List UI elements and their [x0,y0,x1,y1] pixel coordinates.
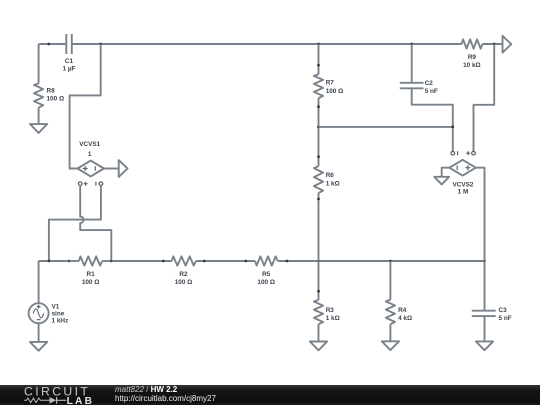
node dot R1 left terminal [68,260,71,263]
node dot R7 top junction [317,43,320,46]
logo resistor-diode doodle [24,398,49,402]
svg-text:5 nF: 5 nF [499,315,512,322]
svg-text:100 Ω: 100 Ω [82,279,100,286]
node dot R5 left terminal [244,260,247,263]
node dot R7 bottom terminal [317,105,320,108]
node dot R2 right terminal [203,260,206,263]
output flag at R9 [503,36,512,53]
wire R6 bottom lead to bus [318,193,320,261]
ground at VCVS2 [434,177,449,185]
node dot R6 top terminal [317,155,320,158]
svg-text:100 Ω: 100 Ω [257,279,275,286]
wire bus R2 to R5 [196,260,255,262]
terminal VCVS2 sense minus [451,151,458,155]
svg-text:R3: R3 [326,307,335,314]
svg-text:R4: R4 [398,307,407,314]
svg-text:R6: R6 [326,172,335,179]
svg-text:C3: C3 [499,307,508,314]
node dot VCVS2 minus junction [451,126,454,129]
terminal VCVS1 sense minus [96,182,103,186]
svg-text:1 kHz: 1 kHz [52,318,69,325]
svg-text:V1: V1 [52,303,60,310]
wire R9 right lead to flag [483,43,503,45]
node dot R7 top terminal [317,64,320,67]
wire C2 top lead [411,44,413,83]
dependent source VCVS2 [449,160,475,176]
resistor R3 [314,300,340,324]
capacitor C2 [400,80,438,95]
op VCVS1 label [79,141,100,158]
node dot R1 right terminal [110,260,113,263]
svg-text:1: 1 [88,151,92,158]
wire bus R5 to C3 column [278,260,485,262]
svg-text:1 M: 1 M [458,189,469,196]
node dot C3 bus junction [483,260,486,263]
node dot R3 top terminal [317,290,320,293]
wire R9 output down to VCVS2 plus sense [474,44,495,151]
svg-text:10 kΩ: 10 kΩ [463,62,481,69]
wire VCVS1 sense minus to left of R1 [49,186,101,262]
svg-text:R5: R5 [262,271,271,278]
resistor R8 [34,83,64,107]
resistor R7 [314,74,343,98]
resistor R5 [255,256,278,286]
svg-text:R9: R9 [468,54,477,61]
wire V1 top lead [38,261,40,303]
svg-text:4 kΩ: 4 kΩ [398,315,412,322]
op VCVS2 label [453,182,474,196]
wire R4 bottom lead [389,324,391,341]
wire from top net down to VCVS1 plus output [70,44,101,169]
wire top net from R8 corner to C1 left plate [39,43,67,45]
svg-text:R2: R2 [179,271,188,278]
terminal VCVS1 sense plus [78,182,87,186]
resistor R9 [462,39,483,69]
wire mid net R7 bottom to VCVS2 minus column [319,126,453,128]
node dot R9 right terminal [493,43,496,46]
ground below C3 [476,341,493,350]
node dot R2 left terminal [162,260,165,263]
svg-text:R7: R7 [326,79,335,86]
svg-text:matt822 / HW 2.2: matt822 / HW 2.2 [115,385,178,394]
wire C3 top lead [484,261,486,311]
node dot R6 bottom terminal [317,198,320,201]
wire top net from C1 right plate to R9 [72,43,462,45]
wire VCVS1 output to flag [104,168,119,170]
svg-text:LAB: LAB [67,396,95,405]
ground below V1 [30,342,47,351]
wire V1 bottom lead [38,323,40,342]
terminal VCVS2 sense plus [466,151,475,155]
node dot C2 top junction [410,43,413,46]
node dot C1 left terminal [47,43,50,46]
svg-text:sine: sine [52,311,65,318]
node dot R4 bus junction [389,260,392,263]
svg-text:VCVS1: VCVS1 [79,141,100,148]
wire R3 bottom lead [318,324,320,341]
footer bar [0,385,540,405]
capacitor C3 [472,307,512,322]
svg-text:100 Ω: 100 Ω [175,279,193,286]
svg-text:http://circuitlab.com/cj8my27: http://circuitlab.com/cj8my27 [115,394,216,403]
svg-text:100 Ω: 100 Ω [326,88,344,95]
svg-text:C1: C1 [65,58,74,65]
resistor R4 [386,300,412,324]
svg-text:1 kΩ: 1 kΩ [326,181,340,188]
wire C2 bottom to VCVS2 minus sense [412,88,453,151]
svg-text:5 nF: 5 nF [425,88,438,95]
svg-text:1 kΩ: 1 kΩ [326,315,340,322]
wire VCVS2 output to bus [476,168,485,261]
svg-text:VCVS2: VCVS2 [453,182,474,189]
wire R3 top lead [318,261,320,300]
wire R7 bottom lead [318,98,320,166]
svg-text:C2: C2 [425,80,434,87]
resistor R6 [314,166,340,193]
node dot mid-wire junction [317,126,320,129]
output flag of VCVS1 [119,160,128,177]
wire R1 right lead [102,260,111,262]
wire R4 top lead [389,261,391,300]
node dot R3 bus junction [317,260,320,263]
ground below R8 [30,124,47,133]
node dot VCVS1 feed junction [99,43,102,46]
wire R8 top lead [38,44,40,83]
svg-text:R1: R1 [87,271,96,278]
wire R7 top lead [318,44,320,74]
wire VCVS1 sense plus with hop to right of R1 [80,186,111,262]
svg-text:R8: R8 [47,88,56,95]
voltage source V1 [29,303,69,325]
wire C3 bottom lead [484,316,486,341]
ground below R3 [310,342,327,351]
dependent source VCVS1 [78,161,104,177]
wire bottom bus left segment [39,260,70,262]
svg-text:100 Ω: 100 Ω [47,96,65,103]
svg-text:1 µF: 1 µF [63,66,76,73]
ground below R4 [382,341,399,350]
wire R1 left lead [69,260,79,262]
resistor R1 [79,256,102,286]
node dot V1 sense junction [48,260,51,263]
capacitor C1 [63,34,76,73]
node dot R5 right terminal [286,260,289,263]
wire VCVS2 left to ground [442,168,450,177]
resistor R2 [172,256,196,286]
wire bus R1 to R2 [112,260,172,262]
wire R8 bottom lead [38,108,40,125]
